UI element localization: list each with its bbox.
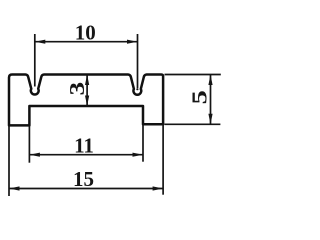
arrowhead bottom of dim 5 xyxy=(208,114,212,125)
svg-text:11: 11 xyxy=(74,133,94,157)
profile outline (extrusion cross-section) xyxy=(9,75,163,126)
arrowhead left of dim 10 xyxy=(35,40,46,44)
extension line left for dim 11 (channel wall extended) xyxy=(28,125,30,162)
svg-text:10: 10 xyxy=(75,20,96,44)
arrowhead top of dim 3 xyxy=(85,75,89,86)
extension line tip dot inside notch 2 bulb xyxy=(136,88,138,90)
svg-text:15: 15 xyxy=(73,167,94,191)
arrowhead bottom of dim 3 xyxy=(85,96,89,107)
extension line right for dim 11 (channel wall extended) xyxy=(142,124,144,161)
extension line through notch 1 (left slot centerline) xyxy=(34,34,36,87)
dimension line 15 xyxy=(9,188,163,190)
extension line left for dim 15 (outer edge extended) xyxy=(8,125,10,196)
arrowhead left of dim 11 xyxy=(29,153,40,157)
arrowhead left of dim 15 xyxy=(9,186,20,190)
extension line through notch 2 (right slot centerline) xyxy=(137,34,139,88)
arrowhead top of dim 5 xyxy=(208,75,212,86)
arrowhead right of dim 15 xyxy=(153,186,164,190)
svg-text:3: 3 xyxy=(66,82,89,96)
dimension line 10 (top) xyxy=(35,41,138,43)
extension line right for dim 15 (outer edge extended) xyxy=(162,124,164,194)
dimension line 11 xyxy=(29,154,143,156)
top extension line to dim 5 xyxy=(165,74,221,76)
svg-text:5: 5 xyxy=(189,90,212,104)
dimension line 5 (right side) xyxy=(210,75,212,125)
dimension line 3 (vertical, notch depth) xyxy=(86,75,88,107)
bottom extension line to dim 5 xyxy=(165,123,221,125)
arrowhead right of dim 11 xyxy=(133,153,144,157)
arrowhead right of dim 10 xyxy=(127,40,138,44)
